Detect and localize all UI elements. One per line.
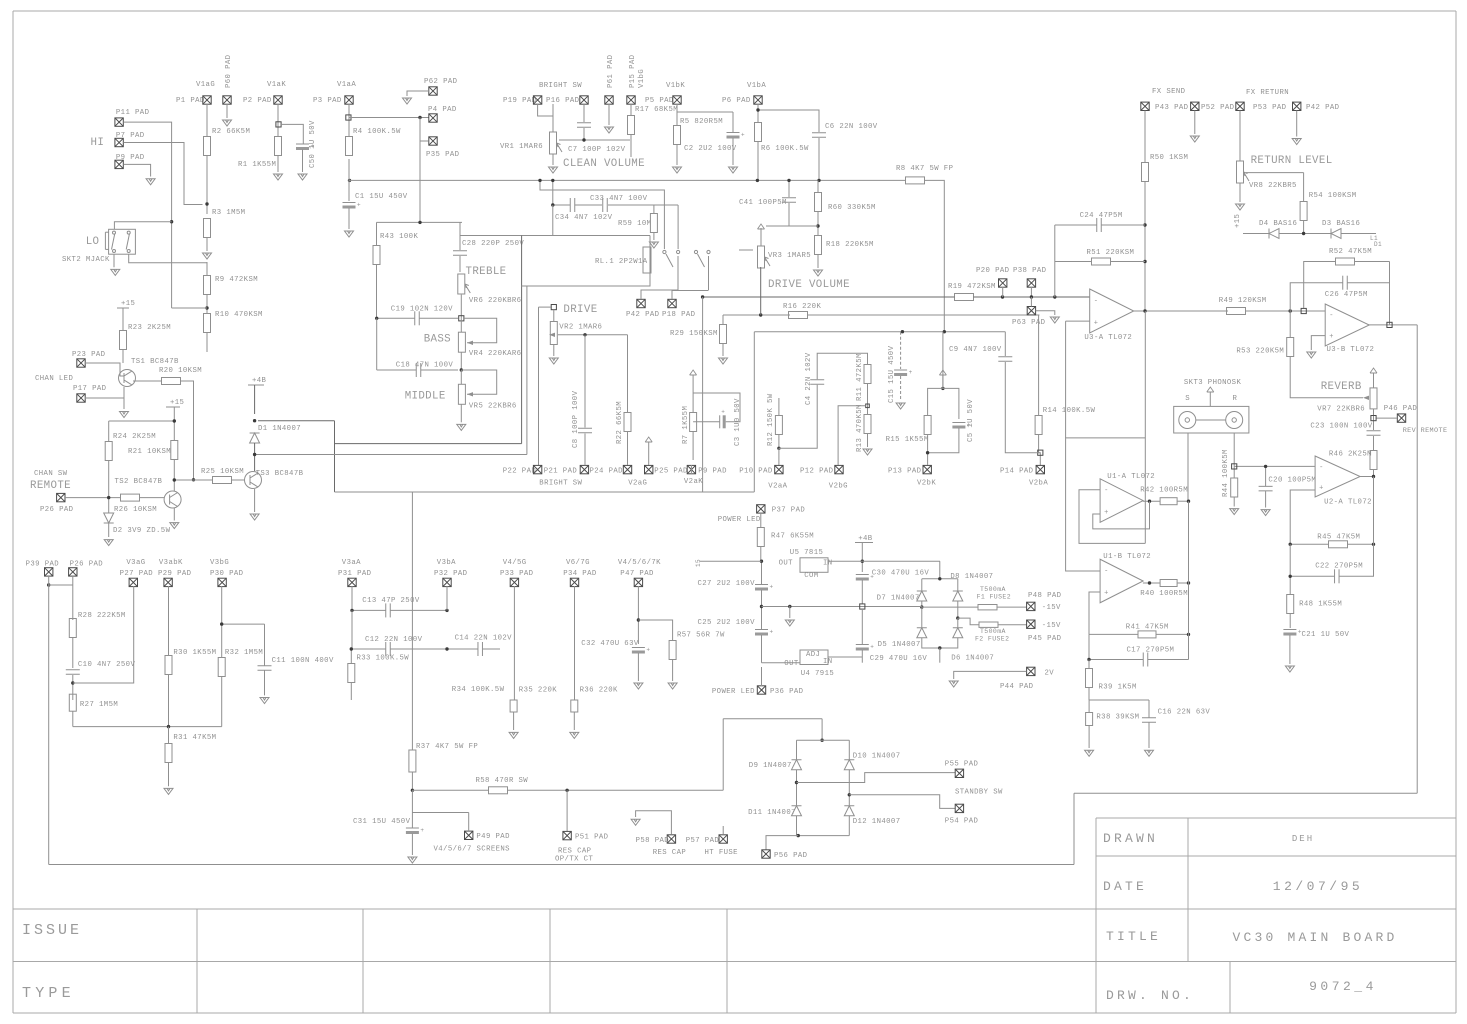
svg-text:R48 1K55M: R48 1K55M bbox=[1299, 600, 1342, 608]
svg-text:R38 39KSM: R38 39KSM bbox=[1096, 713, 1139, 721]
svg-text:C1 15U 450V: C1 15U 450V bbox=[355, 193, 408, 201]
svg-text:U3-A TL072: U3-A TL072 bbox=[1084, 334, 1132, 342]
svg-text:COM: COM bbox=[804, 572, 818, 580]
svg-text:D12 1N4007: D12 1N4007 bbox=[853, 818, 901, 826]
svg-text:C23 100N 100V: C23 100N 100V bbox=[1310, 423, 1372, 431]
svg-text:HI: HI bbox=[91, 137, 105, 149]
svg-text:V3aA: V3aA bbox=[342, 559, 361, 567]
svg-text:C2 2U2 100V: C2 2U2 100V bbox=[684, 145, 737, 153]
svg-text:R54 100KSM: R54 100KSM bbox=[1309, 192, 1357, 200]
svg-text:+15: +15 bbox=[121, 300, 135, 308]
svg-text:+: + bbox=[1104, 509, 1108, 517]
svg-text:P25 PAD: P25 PAD bbox=[654, 468, 688, 476]
svg-text:V1bK: V1bK bbox=[666, 82, 685, 90]
svg-text:P58 PAD: P58 PAD bbox=[636, 837, 670, 845]
svg-text:R: R bbox=[1233, 395, 1238, 403]
svg-text:R1 1K55M: R1 1K55M bbox=[238, 161, 276, 169]
svg-text:D9 1N4007: D9 1N4007 bbox=[749, 762, 792, 770]
svg-text:HT FUSE: HT FUSE bbox=[705, 849, 738, 857]
svg-text:P31 PAD: P31 PAD bbox=[338, 570, 372, 578]
svg-text:P14 PAD: P14 PAD bbox=[1000, 468, 1034, 476]
svg-text:-: - bbox=[1094, 298, 1098, 306]
svg-text:-: - bbox=[1104, 568, 1108, 576]
svg-text:R33 100K.5W: R33 100K.5W bbox=[357, 655, 410, 663]
svg-text:+15: +15 bbox=[170, 399, 184, 407]
svg-text:V3bG: V3bG bbox=[210, 559, 229, 567]
svg-text:U1-B TL072: U1-B TL072 bbox=[1103, 553, 1151, 561]
svg-text:P42 PAD: P42 PAD bbox=[626, 311, 660, 319]
svg-text:CHAN SW: CHAN SW bbox=[34, 470, 68, 478]
svg-text:R32 1M5M: R32 1M5M bbox=[225, 649, 263, 657]
svg-text:LO: LO bbox=[86, 236, 100, 248]
svg-text:P54 PAD: P54 PAD bbox=[945, 817, 979, 825]
svg-text:V2aK: V2aK bbox=[684, 478, 703, 486]
svg-text:R28 222K5M: R28 222K5M bbox=[78, 612, 126, 620]
svg-text:-15V: -15V bbox=[1042, 622, 1061, 630]
svg-text:R12 150K 5W: R12 150K 5W bbox=[767, 393, 775, 446]
svg-text:C4 22N 102V: C4 22N 102V bbox=[805, 352, 813, 405]
svg-text:C26 47P5M: C26 47P5M bbox=[1325, 291, 1368, 299]
svg-text:V4/5/6/7 SCREENS: V4/5/6/7 SCREENS bbox=[434, 846, 511, 854]
svg-text:V2aA: V2aA bbox=[768, 483, 787, 491]
svg-text:R40 100R5M: R40 100R5M bbox=[1140, 590, 1188, 598]
svg-text:R4 100K.5W: R4 100K.5W bbox=[353, 128, 401, 136]
svg-text:P6 PAD: P6 PAD bbox=[722, 97, 751, 105]
svg-text:V1aA: V1aA bbox=[337, 81, 356, 89]
svg-text:D4 BAS16: D4 BAS16 bbox=[1259, 220, 1297, 228]
svg-text:V3bA: V3bA bbox=[437, 559, 456, 567]
svg-text:R35 220K: R35 220K bbox=[519, 686, 557, 694]
svg-text:C50 1U 50V: C50 1U 50V bbox=[309, 120, 317, 168]
svg-text:D7 1N4007: D7 1N4007 bbox=[877, 595, 920, 603]
svg-text:RETURN LEVEL: RETURN LEVEL bbox=[1251, 155, 1333, 167]
svg-text:R20 10KSM: R20 10KSM bbox=[159, 367, 202, 375]
svg-text:P23 PAD: P23 PAD bbox=[72, 351, 106, 359]
svg-text:V4/5/6/7K: V4/5/6/7K bbox=[618, 559, 661, 567]
svg-text:+15: +15 bbox=[1234, 214, 1242, 228]
svg-text:P3 PAD: P3 PAD bbox=[313, 97, 342, 105]
svg-text:+: + bbox=[420, 827, 424, 834]
svg-text:R21 10KSM: R21 10KSM bbox=[128, 448, 171, 456]
svg-text:R36 220K: R36 220K bbox=[580, 686, 618, 694]
svg-text:R5 820R5M: R5 820R5M bbox=[680, 118, 723, 126]
svg-text:R18 220K5M: R18 220K5M bbox=[826, 241, 874, 249]
svg-text:DRAWN: DRAWN bbox=[1103, 831, 1158, 846]
svg-text:R29 150KSM: R29 150KSM bbox=[670, 330, 718, 338]
svg-text:C20 100P5M: C20 100P5M bbox=[1268, 477, 1316, 485]
svg-text:C8 100P 100V: C8 100P 100V bbox=[572, 390, 580, 448]
svg-text:R43 100K: R43 100K bbox=[380, 233, 418, 241]
svg-text:V1bG: V1bG bbox=[638, 69, 646, 88]
svg-text:R16 220K: R16 220K bbox=[783, 303, 821, 311]
svg-text:P45 PAD: P45 PAD bbox=[1028, 635, 1062, 643]
svg-text:R3 1M5M: R3 1M5M bbox=[212, 209, 245, 217]
svg-text:P47 PAD: P47 PAD bbox=[620, 570, 654, 578]
svg-text:TS1 BC847B: TS1 BC847B bbox=[131, 358, 179, 366]
svg-text:+: + bbox=[1319, 484, 1323, 492]
svg-text:+: + bbox=[1329, 333, 1333, 341]
svg-text:D1: D1 bbox=[1374, 241, 1382, 248]
svg-text:MIDDLE: MIDDLE bbox=[405, 390, 446, 402]
svg-text:V6/7G: V6/7G bbox=[566, 559, 590, 567]
svg-text:VR8 22KBR5: VR8 22KBR5 bbox=[1249, 182, 1297, 190]
svg-text:P12 PAD: P12 PAD bbox=[800, 468, 834, 476]
svg-text:R39 1K5M: R39 1K5M bbox=[1099, 684, 1137, 692]
svg-text:R60 330K5M: R60 330K5M bbox=[828, 204, 876, 212]
svg-text:SKT2 MJACK: SKT2 MJACK bbox=[62, 256, 110, 264]
svg-text:+: + bbox=[646, 647, 650, 654]
svg-text:R7 1K55M: R7 1K55M bbox=[682, 406, 690, 444]
svg-text:-15V: -15V bbox=[1042, 604, 1061, 612]
svg-text:P27 PAD: P27 PAD bbox=[120, 570, 154, 578]
svg-text:P42 PAD: P42 PAD bbox=[1306, 104, 1340, 112]
svg-text:R24 2K25M: R24 2K25M bbox=[113, 433, 156, 441]
svg-text:U4 7915: U4 7915 bbox=[801, 670, 834, 678]
svg-text:C27 2U2 100V: C27 2U2 100V bbox=[698, 580, 756, 588]
svg-text:-: - bbox=[1104, 487, 1108, 495]
svg-text:VR7 22KBR6: VR7 22KBR6 bbox=[1317, 405, 1365, 413]
svg-text:VR4 220KAR6: VR4 220KAR6 bbox=[469, 350, 522, 358]
svg-text:+: + bbox=[1094, 320, 1098, 328]
svg-text:C21 1U 50V: C21 1U 50V bbox=[1302, 631, 1350, 639]
svg-text:D1 1N4007: D1 1N4007 bbox=[258, 425, 301, 433]
svg-text:P7 PAD: P7 PAD bbox=[116, 132, 145, 140]
svg-text:P29 PAD: P29 PAD bbox=[158, 570, 192, 578]
svg-text:R26 10KSM: R26 10KSM bbox=[114, 506, 157, 514]
svg-text:R13 470K5M: R13 470K5M bbox=[856, 404, 864, 452]
svg-text:BRIGHT SW: BRIGHT SW bbox=[539, 479, 582, 487]
svg-text:C31 15U 450V: C31 15U 450V bbox=[353, 818, 411, 826]
svg-text:OUT: OUT bbox=[784, 660, 799, 668]
svg-text:2V: 2V bbox=[1045, 670, 1055, 678]
svg-text:P46 PAD: P46 PAD bbox=[1384, 405, 1418, 413]
svg-text:STANDBY SW: STANDBY SW bbox=[955, 788, 1003, 796]
svg-text:+4B: +4B bbox=[858, 535, 873, 543]
svg-text:P10 PAD: P10 PAD bbox=[739, 468, 773, 476]
svg-text:RES CAP: RES CAP bbox=[653, 849, 686, 857]
svg-text:+: + bbox=[1298, 629, 1302, 636]
svg-text:R19 472KSM: R19 472KSM bbox=[948, 283, 996, 291]
svg-text:+: + bbox=[870, 574, 874, 581]
svg-text:R57 56R 7W: R57 56R 7W bbox=[677, 632, 725, 640]
svg-text:+: + bbox=[870, 644, 874, 651]
svg-text:S: S bbox=[1185, 395, 1190, 403]
svg-text:R47 6K55M: R47 6K55M bbox=[771, 533, 814, 541]
svg-text:DRIVE VOLUME: DRIVE VOLUME bbox=[768, 279, 850, 291]
svg-text:C14 22N 102V: C14 22N 102V bbox=[455, 634, 513, 642]
svg-text:VR6 220KBR6: VR6 220KBR6 bbox=[469, 297, 522, 305]
svg-text:P52 PAD: P52 PAD bbox=[1201, 104, 1235, 112]
svg-text:U3-B TL072: U3-B TL072 bbox=[1327, 346, 1375, 354]
svg-text:V2bK: V2bK bbox=[917, 479, 936, 487]
svg-text:P57 PAD: P57 PAD bbox=[686, 837, 720, 845]
svg-text:R22 66K5M: R22 66K5M bbox=[616, 401, 624, 444]
svg-text:C16 22N 63V: C16 22N 63V bbox=[1158, 709, 1211, 717]
svg-text:P43 PAD: P43 PAD bbox=[1155, 104, 1189, 112]
svg-text:V2aG: V2aG bbox=[628, 479, 647, 487]
svg-text:R37 4K7 5W FP: R37 4K7 5W FP bbox=[416, 743, 478, 751]
svg-text:P30 PAD: P30 PAD bbox=[210, 570, 244, 578]
svg-text:+: + bbox=[770, 584, 774, 591]
svg-text:D3 BAS16: D3 BAS16 bbox=[1322, 220, 1360, 228]
svg-text:P4 PAD: P4 PAD bbox=[428, 106, 457, 114]
svg-text:C28 220P 250V: C28 220P 250V bbox=[462, 240, 524, 248]
svg-text:FX SEND: FX SEND bbox=[1152, 88, 1186, 96]
svg-text:P5 PAD: P5 PAD bbox=[645, 97, 674, 105]
svg-text:P36 PAD: P36 PAD bbox=[770, 688, 804, 696]
svg-text:P56 PAD: P56 PAD bbox=[774, 852, 808, 860]
svg-text:C29 470U 16V: C29 470U 16V bbox=[870, 655, 928, 663]
svg-text:CHAN LED: CHAN LED bbox=[35, 375, 73, 383]
svg-text:F2 FUSE2: F2 FUSE2 bbox=[975, 636, 1009, 643]
svg-text:+: + bbox=[770, 629, 774, 636]
svg-text:R45 47K5M: R45 47K5M bbox=[1317, 533, 1360, 541]
svg-text:P49 PAD: P49 PAD bbox=[476, 833, 510, 841]
svg-text:SKT3 PHONOSK: SKT3 PHONOSK bbox=[1184, 379, 1242, 387]
svg-text:T500mA: T500mA bbox=[980, 586, 1006, 593]
svg-text:12/07/95: 12/07/95 bbox=[1273, 879, 1363, 894]
svg-text:P1 PAD: P1 PAD bbox=[176, 97, 205, 105]
svg-text:C19 102N 120V: C19 102N 120V bbox=[391, 305, 453, 313]
svg-text:C6 22N 100V: C6 22N 100V bbox=[825, 123, 878, 131]
svg-text:C25 2U2 100V: C25 2U2 100V bbox=[698, 619, 756, 627]
svg-text:P51 PAD: P51 PAD bbox=[575, 834, 609, 842]
svg-text:P21 PAD: P21 PAD bbox=[544, 468, 578, 476]
svg-text:R53 220K5M: R53 220K5M bbox=[1236, 348, 1284, 356]
svg-text:DRIVE: DRIVE bbox=[563, 304, 597, 316]
svg-text:D10 1N4007: D10 1N4007 bbox=[853, 753, 901, 761]
svg-text:P11 PAD: P11 PAD bbox=[116, 109, 150, 117]
svg-text:R34 100K.5W: R34 100K.5W bbox=[452, 686, 505, 694]
svg-text:P19 PAD: P19 PAD bbox=[503, 97, 537, 105]
svg-text:P34 PAD: P34 PAD bbox=[563, 570, 597, 578]
svg-text:C9 4N7 100V: C9 4N7 100V bbox=[949, 346, 1002, 354]
svg-text:P55 PAD: P55 PAD bbox=[945, 760, 979, 768]
svg-text:V3aG: V3aG bbox=[126, 559, 145, 567]
svg-text:F1 FUSE2: F1 FUSE2 bbox=[977, 593, 1011, 600]
svg-text:P15 PAD: P15 PAD bbox=[629, 54, 637, 88]
svg-text:REVERB: REVERB bbox=[1321, 381, 1362, 393]
svg-text:R27 1M5M: R27 1M5M bbox=[80, 701, 118, 709]
svg-text:R6 100K.5W: R6 100K.5W bbox=[761, 145, 809, 153]
svg-text:TITLE: TITLE bbox=[1106, 929, 1161, 944]
svg-text:+: + bbox=[721, 408, 725, 415]
svg-text:TS3 BC847B: TS3 BC847B bbox=[256, 470, 304, 478]
svg-text:+4B: +4B bbox=[252, 377, 267, 385]
svg-text:TS2 BC847B: TS2 BC847B bbox=[115, 478, 163, 486]
svg-text:P32 PAD: P32 PAD bbox=[434, 570, 468, 578]
svg-text:D11 1N4007: D11 1N4007 bbox=[748, 809, 796, 817]
svg-text:V2bA: V2bA bbox=[1029, 479, 1048, 487]
svg-text:V3abK: V3abK bbox=[159, 559, 183, 567]
svg-text:DEH: DEH bbox=[1292, 834, 1314, 844]
svg-text:U2-A TL072: U2-A TL072 bbox=[1324, 499, 1372, 507]
svg-text:15: 15 bbox=[695, 559, 702, 567]
svg-text:+: + bbox=[1104, 589, 1108, 597]
svg-text:R52 47K5M: R52 47K5M bbox=[1329, 248, 1372, 256]
svg-text:V1aK: V1aK bbox=[267, 81, 286, 89]
svg-text:R10 470KSM: R10 470KSM bbox=[215, 311, 263, 319]
svg-text:BASS: BASS bbox=[424, 334, 451, 346]
svg-text:P38 PAD: P38 PAD bbox=[1013, 267, 1047, 275]
svg-text:P39 PAD: P39 PAD bbox=[26, 561, 60, 569]
svg-text:R23 2K25M: R23 2K25M bbox=[128, 324, 171, 332]
svg-text:R59 10M: R59 10M bbox=[618, 220, 651, 228]
svg-text:P60 PAD: P60 PAD bbox=[225, 54, 233, 88]
svg-text:P63 PAD: P63 PAD bbox=[1012, 319, 1046, 327]
svg-text:C18 47N 100V: C18 47N 100V bbox=[396, 362, 454, 370]
svg-text:P9 PAD: P9 PAD bbox=[698, 468, 727, 476]
svg-text:V2bG: V2bG bbox=[829, 483, 848, 491]
svg-text:P13 PAD: P13 PAD bbox=[888, 468, 922, 476]
svg-text:R50 1KSM: R50 1KSM bbox=[1150, 154, 1188, 162]
svg-text:P18 PAD: P18 PAD bbox=[662, 311, 696, 319]
svg-text:+: + bbox=[741, 132, 745, 139]
svg-text:RES CAP: RES CAP bbox=[558, 847, 591, 855]
svg-text:ADJ: ADJ bbox=[806, 651, 820, 659]
svg-text:R17 68K5M: R17 68K5M bbox=[635, 106, 678, 114]
svg-text:VR2 1MAR6: VR2 1MAR6 bbox=[559, 323, 602, 331]
svg-text:P48 PAD: P48 PAD bbox=[1028, 592, 1062, 600]
svg-text:P2 PAD: P2 PAD bbox=[243, 97, 272, 105]
svg-text:TREBLE: TREBLE bbox=[466, 266, 507, 278]
svg-text:R46 2K25M: R46 2K25M bbox=[1329, 450, 1372, 458]
svg-text:RL.1 2P2W1A: RL.1 2P2W1A bbox=[595, 258, 648, 266]
svg-text:+: + bbox=[909, 369, 913, 376]
svg-text:C5 1U 50V: C5 1U 50V bbox=[967, 399, 975, 442]
svg-text:C32 470U 63V: C32 470U 63V bbox=[581, 640, 639, 648]
svg-text:DRW. NO.: DRW. NO. bbox=[1106, 988, 1194, 1003]
svg-text:REV REMOTE: REV REMOTE bbox=[1403, 427, 1448, 435]
svg-text:C41 100P5M: C41 100P5M bbox=[739, 199, 787, 207]
svg-text:P17 PAD: P17 PAD bbox=[73, 385, 107, 393]
svg-text:REMOTE: REMOTE bbox=[30, 480, 71, 492]
svg-text:C11 100N 400V: C11 100N 400V bbox=[272, 657, 334, 665]
svg-text:OUT: OUT bbox=[779, 560, 794, 568]
svg-text:R25 10KSM: R25 10KSM bbox=[201, 468, 244, 476]
svg-text:DATE: DATE bbox=[1103, 879, 1147, 894]
svg-text:U1-A TL072: U1-A TL072 bbox=[1107, 473, 1155, 481]
svg-text:P20 PAD: P20 PAD bbox=[976, 267, 1010, 275]
svg-text:C12 22N 100V: C12 22N 100V bbox=[365, 636, 423, 644]
svg-text:D5 1N4007: D5 1N4007 bbox=[878, 641, 921, 649]
svg-text:P35 PAD: P35 PAD bbox=[426, 151, 460, 159]
svg-text:P33 PAD: P33 PAD bbox=[500, 570, 534, 578]
svg-text:R30 1K55M: R30 1K55M bbox=[173, 649, 216, 657]
svg-text:IN: IN bbox=[823, 658, 833, 666]
svg-text:P37 PAD: P37 PAD bbox=[772, 507, 806, 515]
svg-text:VR3 1MAR5: VR3 1MAR5 bbox=[768, 252, 811, 260]
svg-text:C10 4N7 250V: C10 4N7 250V bbox=[78, 661, 136, 669]
svg-text:C30 470U 16V: C30 470U 16V bbox=[872, 570, 930, 578]
svg-text:D2 3V9 ZD.5W: D2 3V9 ZD.5W bbox=[113, 527, 171, 535]
svg-text:R49 120KSM: R49 120KSM bbox=[1219, 297, 1267, 305]
svg-text:P24 PAD: P24 PAD bbox=[590, 468, 624, 476]
svg-text:P26 PAD: P26 PAD bbox=[40, 506, 74, 514]
svg-text:V1bA: V1bA bbox=[747, 82, 766, 90]
svg-text:P62 PAD: P62 PAD bbox=[424, 78, 458, 86]
svg-text:R11 472K5M: R11 472K5M bbox=[856, 353, 864, 401]
svg-text:C34 4N7 102V: C34 4N7 102V bbox=[555, 214, 613, 222]
svg-text:VC30 MAIN BOARD: VC30 MAIN BOARD bbox=[1232, 930, 1397, 945]
svg-text:P22 PAD: P22 PAD bbox=[503, 468, 537, 476]
svg-text:P44 PAD: P44 PAD bbox=[1000, 683, 1034, 691]
svg-text:U5 7815: U5 7815 bbox=[790, 549, 823, 557]
svg-text:R14 100K.5W: R14 100K.5W bbox=[1043, 407, 1096, 415]
svg-text:C17 270P5M: C17 270P5M bbox=[1127, 647, 1175, 655]
svg-text:V4/5G: V4/5G bbox=[503, 559, 527, 567]
svg-text:VR1 1MAR6: VR1 1MAR6 bbox=[500, 143, 543, 151]
svg-text:R8 4K7 5W FP: R8 4K7 5W FP bbox=[896, 165, 953, 173]
svg-text:ISSUE: ISSUE bbox=[22, 922, 82, 939]
svg-text:BRIGHT SW: BRIGHT SW bbox=[539, 82, 582, 90]
svg-text:-: - bbox=[1319, 464, 1323, 472]
svg-text:R41 47K5M: R41 47K5M bbox=[1126, 624, 1169, 632]
svg-text:OP/TX CT: OP/TX CT bbox=[555, 855, 593, 863]
svg-text:R51 220KSM: R51 220KSM bbox=[1087, 249, 1135, 257]
svg-text:D8 1N4007: D8 1N4007 bbox=[950, 573, 993, 581]
svg-text:R15 1K55M: R15 1K55M bbox=[886, 436, 929, 444]
svg-text:FX RETURN: FX RETURN bbox=[1246, 89, 1289, 97]
svg-text:V1aG: V1aG bbox=[196, 81, 215, 89]
svg-text:TYPE: TYPE bbox=[22, 985, 75, 1002]
svg-text:P16 PAD: P16 PAD bbox=[546, 97, 580, 105]
svg-text:R44 100K5M: R44 100K5M bbox=[1222, 449, 1230, 497]
svg-text:POWER LED: POWER LED bbox=[718, 516, 761, 524]
svg-text:P53 PAD: P53 PAD bbox=[1253, 104, 1287, 112]
svg-text:C7 100P 102V: C7 100P 102V bbox=[568, 146, 626, 154]
svg-text:+: + bbox=[357, 202, 361, 209]
svg-text:VR5 22KBR6: VR5 22KBR6 bbox=[469, 403, 517, 411]
svg-text:P9 PAD: P9 PAD bbox=[116, 154, 145, 162]
svg-text:D6 1N4007: D6 1N4007 bbox=[951, 655, 994, 663]
svg-text:T500mA: T500mA bbox=[980, 628, 1006, 635]
svg-text:R9 472KSM: R9 472KSM bbox=[215, 276, 258, 284]
svg-text:9072_4: 9072_4 bbox=[1309, 979, 1377, 994]
svg-text:POWER LED: POWER LED bbox=[712, 688, 755, 696]
svg-text:-: - bbox=[1329, 312, 1333, 320]
svg-text:R2 66K5M: R2 66K5M bbox=[212, 128, 250, 136]
svg-text:C33 4N7 100V: C33 4N7 100V bbox=[590, 195, 648, 203]
svg-text:R58 470R SW: R58 470R SW bbox=[476, 777, 529, 785]
svg-text:R31 47K5M: R31 47K5M bbox=[173, 734, 216, 742]
svg-text:C13 47P 250V: C13 47P 250V bbox=[362, 597, 420, 605]
svg-text:P61 PAD: P61 PAD bbox=[607, 54, 615, 88]
svg-text:R42 100R5M: R42 100R5M bbox=[1140, 486, 1188, 494]
svg-text:CLEAN VOLUME: CLEAN VOLUME bbox=[563, 158, 645, 170]
